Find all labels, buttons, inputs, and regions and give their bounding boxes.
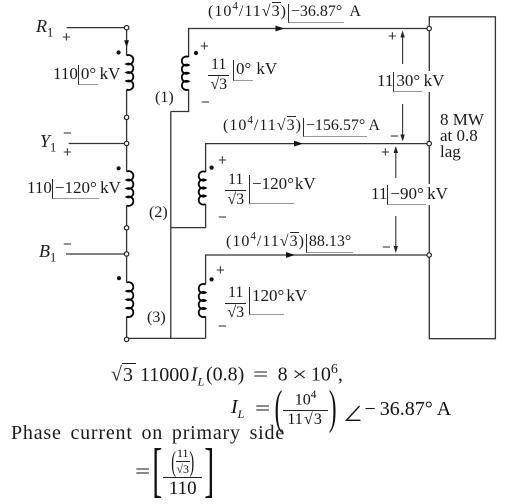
V23 plus sign	[381, 144, 390, 161]
value label secondary 1 voltage fraction	[208, 57, 229, 93]
voltage arrow V12 upper shaft	[402, 36, 404, 65]
wire Y1 node to coil2	[126, 146, 128, 172]
label R1 plus sign	[62, 29, 71, 46]
node R1 terminal	[124, 26, 128, 30]
inductor primary 2	[127, 171, 134, 206]
node primary junction 2	[124, 226, 128, 230]
wire bottom return	[129, 337, 206, 339]
label winding 1	[155, 89, 174, 107]
current label line 2	[223, 115, 380, 137]
arrowhead line current 3	[286, 252, 295, 258]
wire Y1 phase lead	[69, 143, 125, 145]
inductor primary 3	[127, 282, 134, 317]
node Y1 terminal	[124, 141, 128, 145]
wire primary coil3 to bottom node	[126, 317, 128, 338]
wire primary node to Y1 node	[126, 120, 128, 142]
label winding 2	[149, 204, 168, 222]
wire primary bus top segment	[126, 30, 128, 56]
arrowhead V12 up	[400, 31, 404, 38]
equation line 4	[137, 447, 214, 497]
wire secondary neutral bus	[170, 112, 172, 339]
secondary 3 minus sign	[218, 318, 227, 335]
label B1 minus sign	[63, 236, 72, 253]
node load terminal 3	[427, 253, 431, 257]
wire secondary2 top lead	[206, 144, 427, 172]
polarity dot secondary 2	[210, 166, 214, 170]
secondary 2 minus sign	[218, 209, 227, 226]
label winding 3	[147, 309, 166, 327]
value label secondary 2 voltage angle	[249, 174, 316, 204]
wire secondary3 top lead	[206, 255, 427, 285]
label Y1 plus sign	[63, 144, 72, 161]
equation line 3	[11, 422, 285, 445]
label phase B1	[39, 241, 56, 266]
wire secondary1 bottom lead	[171, 90, 189, 112]
inductor secondary 2	[199, 171, 206, 204]
node load terminal 1	[427, 26, 431, 30]
polarity dot primary 3	[117, 276, 121, 280]
polarity dot secondary 3	[210, 277, 214, 281]
value label secondary 3 voltage fraction	[225, 285, 246, 321]
current label line 1	[208, 1, 361, 23]
polarity dot primary 1	[117, 50, 121, 54]
equation line 1	[111, 362, 343, 390]
wire R1 phase lead	[67, 27, 125, 29]
voltage label V23	[371, 184, 448, 205]
wire secondary1 top lead	[189, 29, 427, 58]
arrowhead V23 down	[394, 246, 398, 253]
current label line 3	[226, 231, 353, 253]
value label secondary 1 voltage angle	[233, 59, 277, 81]
arrowhead line current 1	[276, 26, 285, 32]
arrowhead V12 down	[400, 135, 404, 142]
value label secondary 2 voltage fraction	[225, 172, 246, 208]
V12 minus sign	[390, 128, 399, 145]
wire primary between coil2 and node	[126, 205, 128, 225]
value label secondary 3 voltage angle	[249, 286, 307, 315]
wire B1 phase lead	[66, 253, 124, 255]
inductor secondary 3	[199, 284, 206, 317]
voltage arrow V23 lower shaft	[395, 216, 397, 248]
node B1 terminal	[124, 252, 128, 256]
wire secondary3 bottom lead	[205, 317, 207, 339]
voltage arrow V23 upper shaft	[395, 152, 397, 179]
V23 minus sign	[382, 239, 391, 256]
secondary 1 minus sign	[201, 94, 210, 111]
load box 8 MW	[429, 17, 495, 339]
polarity dot primary 2	[117, 166, 121, 170]
equation line 2	[231, 389, 451, 429]
node load terminal 2	[427, 141, 431, 145]
secondary 1 plus sign	[200, 38, 209, 55]
V12 plus sign	[388, 28, 397, 45]
secondary 3 plus sign	[216, 262, 225, 279]
wire primary node to B1 node	[126, 230, 128, 252]
label phase Y1	[40, 131, 56, 156]
inductor primary 1	[127, 55, 134, 90]
label Y1 minus sign	[63, 125, 72, 142]
arrowhead V23 up	[394, 146, 398, 153]
polarity dot secondary 1	[194, 51, 198, 55]
wire primary between coil1 and node	[126, 90, 128, 116]
load label 8 MW at 0.8 lag	[440, 112, 484, 160]
secondary 2 plus sign	[218, 152, 227, 169]
voltage label V12	[377, 71, 444, 92]
voltage arrow V12 lower shaft	[402, 104, 404, 137]
node primary junction 1	[124, 115, 128, 119]
value label 110 angle 0 kV	[53, 64, 120, 85]
wire secondary2 bottom lead	[171, 204, 206, 228]
arrowhead line current 2	[294, 141, 303, 147]
arrowhead primary current	[124, 40, 129, 47]
value label 110 angle -120 kV	[27, 178, 121, 199]
wire B1 node to coil3	[126, 256, 128, 282]
node primary bottom terminal	[124, 337, 128, 341]
inductor secondary 1	[182, 56, 189, 90]
label phase R1	[36, 16, 53, 41]
